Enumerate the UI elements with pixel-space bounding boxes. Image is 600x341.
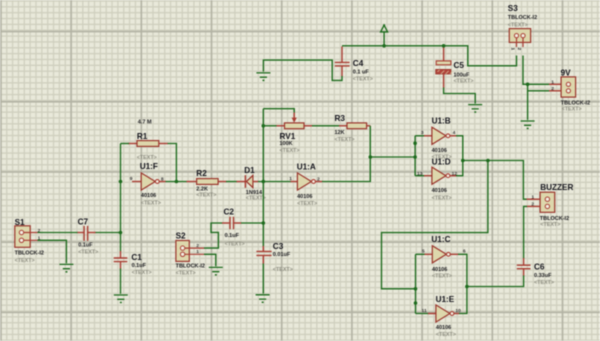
ground (C5) bbox=[468, 105, 482, 113]
ground (C4 rail) bbox=[256, 73, 270, 81]
svg-text:R2: R2 bbox=[196, 169, 207, 178]
wire: buzzer pin2 down to C6 bbox=[524, 206, 541, 265]
node: C7/C1 junction bbox=[119, 231, 123, 235]
svg-text:1: 1 bbox=[531, 194, 534, 200]
inverter U1:F bbox=[130, 162, 166, 207]
svg-text:12K: 12K bbox=[335, 130, 345, 136]
svg-text:<TEXT>: <TEXT> bbox=[454, 79, 474, 85]
svg-text:<TEXT>: <TEXT> bbox=[297, 201, 317, 207]
svg-text:1: 1 bbox=[196, 249, 199, 255]
node: C5 junction bbox=[442, 44, 446, 48]
svg-text:40106: 40106 bbox=[297, 194, 312, 200]
svg-text:4: 4 bbox=[453, 130, 456, 136]
terminal block BUZZER bbox=[531, 183, 573, 228]
svg-text:C7: C7 bbox=[78, 217, 89, 226]
capacitor C3 bbox=[256, 242, 292, 273]
wire: D1 to U1:A input bbox=[258, 181, 297, 183]
terminal block S1 bbox=[15, 218, 44, 264]
svg-text:R3: R3 bbox=[335, 114, 346, 123]
wire: junction down to ground bbox=[527, 84, 529, 120]
svg-text:C1: C1 bbox=[131, 253, 142, 262]
svg-text:U1:E: U1:E bbox=[436, 295, 455, 304]
wire: C5 bottom to ground bbox=[444, 74, 476, 104]
svg-text:U1:C: U1:C bbox=[431, 235, 450, 244]
wire: U1:C/E outputs joined bbox=[458, 254, 467, 313]
svg-text:C5: C5 bbox=[454, 61, 465, 70]
node: D1/C-bus junction bbox=[262, 180, 266, 184]
ground (C3) bbox=[256, 295, 270, 303]
svg-text:0.1uF: 0.1uF bbox=[78, 243, 93, 249]
node: U1:C/E output join bbox=[465, 285, 469, 289]
wire: RV1 wiper feed bbox=[263, 109, 294, 113]
wire: R2 to D1 bbox=[226, 181, 245, 183]
svg-text:0.01uF: 0.01uF bbox=[273, 252, 291, 258]
wire: top rail C4 to S3 pin1 bbox=[342, 46, 517, 66]
wire: C6 bottom to U1:C/E outputs bbox=[467, 276, 524, 287]
svg-text:<TEXT>: <TEXT> bbox=[225, 242, 245, 248]
wire: U1:A out up to feedback bbox=[322, 158, 370, 182]
wire: U1:C/E input bus bbox=[416, 254, 436, 313]
terminal block S3 bbox=[508, 4, 537, 50]
wire: RV1 to R3 bbox=[312, 125, 347, 127]
svg-text:0.33uF: 0.33uF bbox=[534, 273, 552, 279]
svg-text:13: 13 bbox=[417, 171, 423, 177]
svg-text:40106: 40106 bbox=[432, 188, 447, 194]
svg-text:U1:B: U1:B bbox=[432, 116, 451, 125]
svg-text:1: 1 bbox=[509, 48, 515, 51]
ground (C1) bbox=[114, 295, 128, 303]
svg-text:2: 2 bbox=[196, 243, 199, 249]
svg-text:<TEXT>: <TEXT> bbox=[132, 270, 152, 276]
svg-text:R1: R1 bbox=[137, 132, 148, 141]
power VCC arrow bbox=[381, 24, 388, 46]
svg-text:40106: 40106 bbox=[432, 148, 447, 154]
svg-text:<TEXT>: <TEXT> bbox=[432, 195, 452, 201]
svg-text:1: 1 bbox=[289, 176, 292, 182]
capacitor C5 (polarised) bbox=[436, 61, 474, 85]
wire: S3 pin2 down to 9V pin1 row bbox=[523, 56, 561, 85]
svg-text:TBLOCK-I2: TBLOCK-I2 bbox=[15, 251, 44, 257]
svg-text:TBLOCK-I2: TBLOCK-I2 bbox=[540, 216, 569, 222]
svg-text:2: 2 bbox=[516, 48, 522, 51]
wire: left bus x=120.5 (R1 left / U1:F in / C7 / C1) bbox=[120, 144, 122, 259]
svg-text:<TEXT>: <TEXT> bbox=[176, 271, 196, 277]
wire: output row to buzzer bbox=[463, 161, 540, 200]
ground (S2) bbox=[209, 267, 223, 275]
svg-text:100K: 100K bbox=[280, 141, 293, 147]
capacitor C7 bbox=[78, 217, 99, 255]
wire: R3 right down to feedback row bbox=[369, 126, 371, 157]
wire: U1:F out to R2 bbox=[166, 181, 198, 183]
svg-text:<TEXT>: <TEXT> bbox=[141, 200, 161, 206]
ground (S1) bbox=[59, 264, 73, 272]
inverter U1:B bbox=[421, 116, 457, 160]
svg-text:<TEXT>: <TEXT> bbox=[432, 274, 452, 280]
svg-text:<TEXT>: <TEXT> bbox=[196, 193, 216, 199]
svg-text:D1: D1 bbox=[244, 166, 255, 175]
svg-text:<TEXT>: <TEXT> bbox=[335, 137, 355, 143]
svg-text:11: 11 bbox=[422, 308, 427, 314]
svg-text:1: 1 bbox=[551, 80, 554, 86]
wire: C3 to ground bbox=[262, 264, 264, 294]
svg-text:TBLOCK-I2: TBLOCK-I2 bbox=[176, 263, 205, 269]
node: long feedback tap bbox=[486, 159, 490, 163]
wire: C4 bottom jog to ground rail bbox=[263, 60, 342, 80]
svg-text:<TEXT>: <TEXT> bbox=[508, 23, 528, 29]
svg-text:U1:D: U1:D bbox=[432, 157, 451, 166]
svg-text:9V: 9V bbox=[561, 68, 572, 77]
capacitor C6 bbox=[517, 262, 554, 285]
svg-text:C6: C6 bbox=[534, 262, 545, 271]
wire: U1:B/D outputs joined bbox=[456, 136, 463, 176]
svg-text:40106: 40106 bbox=[436, 325, 451, 331]
wire: C2 right to bus bbox=[234, 222, 264, 224]
svg-text:0.1uF: 0.1uF bbox=[225, 233, 240, 239]
svg-text:<TEXT>: <TEXT> bbox=[137, 155, 157, 161]
capacitor C2 bbox=[224, 208, 245, 248]
node: output join dot bbox=[461, 159, 465, 163]
svg-text:<TEXT>: <TEXT> bbox=[534, 280, 554, 286]
svg-text:C2: C2 bbox=[224, 208, 235, 217]
svg-text:U1:A: U1:A bbox=[297, 162, 316, 171]
svg-text:40106: 40106 bbox=[141, 193, 156, 199]
svg-text:8: 8 bbox=[161, 176, 164, 182]
svg-text:<TEXT>: <TEXT> bbox=[15, 258, 35, 264]
svg-text:2: 2 bbox=[317, 176, 320, 182]
capacitor C4 bbox=[335, 47, 373, 83]
svg-text:<TEXT>: <TEXT> bbox=[562, 106, 582, 112]
node: U1:F output junction bbox=[175, 180, 179, 184]
svg-text:<TEXT>: <TEXT> bbox=[540, 222, 560, 228]
node: RV1 left junction bbox=[262, 124, 266, 128]
wire: R1 right down to U1:F output bbox=[168, 144, 177, 182]
node: feedback junction at R3 bbox=[369, 155, 373, 159]
svg-text:<TEXT>: <TEXT> bbox=[436, 332, 456, 338]
svg-text:C3: C3 bbox=[273, 242, 284, 251]
node: bus dot at feedback bbox=[413, 155, 417, 159]
node: input bus dot lower bbox=[414, 301, 418, 305]
potentiometer RV1 bbox=[263, 113, 312, 154]
inverter U1:C bbox=[422, 235, 466, 279]
inverter U1:A bbox=[289, 162, 322, 207]
node: U1:F input junction bbox=[119, 180, 123, 184]
resistor R3 bbox=[335, 114, 371, 143]
wire: 9V pin2 row bbox=[528, 90, 562, 92]
wire: S2 pin1 to ground bbox=[204, 254, 216, 266]
svg-text:RV1: RV1 bbox=[280, 132, 296, 141]
svg-text:TBLOCK-I2: TBLOCK-I2 bbox=[508, 15, 537, 21]
svg-text:0.1uF: 0.1uF bbox=[132, 263, 147, 269]
ground (9V) bbox=[521, 121, 535, 129]
resistor R2 bbox=[196, 169, 226, 199]
node: input bus dot upper bbox=[414, 287, 418, 291]
svg-text:S2: S2 bbox=[176, 232, 186, 241]
wire: S1 pin1 to ground bbox=[38, 240, 67, 263]
resistor R1 bbox=[121, 119, 169, 160]
terminal block S2 bbox=[176, 232, 205, 277]
svg-text:3: 3 bbox=[421, 130, 424, 136]
wire: centre bus x=263.3 bbox=[262, 109, 264, 252]
capacitor C1 bbox=[114, 253, 152, 276]
svg-text:U1:F: U1:F bbox=[140, 162, 158, 171]
terminal block 9V bbox=[551, 68, 590, 112]
svg-text:<TEXT>: <TEXT> bbox=[353, 77, 373, 83]
wire: S1 pin2 to C7 bbox=[38, 232, 85, 234]
svg-text:0.1 uF: 0.1 uF bbox=[353, 69, 370, 75]
wire: S2 pin2 zigzag to C2 bbox=[204, 223, 230, 248]
svg-text:S3: S3 bbox=[508, 4, 518, 13]
node: S3/9V/ground junction bbox=[526, 83, 530, 87]
svg-text:<TEXT>: <TEXT> bbox=[78, 250, 98, 256]
wire: U1:B/D input bus bbox=[415, 136, 432, 176]
diode D1 bbox=[244, 166, 266, 201]
svg-text:5: 5 bbox=[422, 249, 425, 255]
svg-text:C4: C4 bbox=[353, 59, 364, 68]
node: bus dot upper bbox=[413, 141, 417, 145]
svg-text:BUZZER: BUZZER bbox=[540, 183, 573, 192]
wire: C5 top stub bbox=[443, 46, 445, 61]
wire: long feedback down-left to U1:C/E inputs bbox=[382, 161, 488, 289]
node: C2/C3 junction bbox=[262, 221, 266, 225]
wire: C1 to ground bbox=[120, 269, 122, 294]
svg-text:2: 2 bbox=[551, 86, 554, 92]
svg-text:<TEXT>: <TEXT> bbox=[280, 148, 300, 154]
wire: C7 right to junction bbox=[88, 232, 121, 234]
inverter U1:D bbox=[417, 157, 457, 201]
inverter U1:E bbox=[422, 295, 462, 338]
node: VCC junction bbox=[382, 44, 386, 48]
wire: feedback row to U1:B/D input bus bbox=[370, 156, 415, 158]
svg-text:4.7 M: 4.7 M bbox=[138, 119, 152, 125]
svg-text:9: 9 bbox=[130, 176, 133, 182]
svg-text:<TEXT>: <TEXT> bbox=[273, 267, 293, 273]
svg-text:40106: 40106 bbox=[432, 267, 447, 273]
